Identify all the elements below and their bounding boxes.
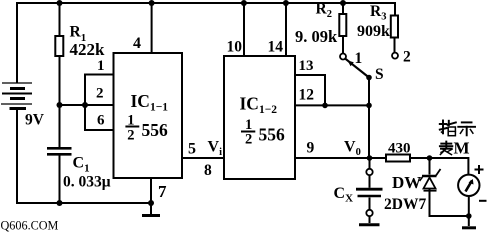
svg-text:12: 12 (299, 87, 315, 104)
svg-text:2DW7: 2DW7 (384, 196, 426, 213)
svg-text:1: 1 (355, 50, 363, 67)
svg-text:13: 13 (299, 58, 314, 74)
svg-text:556: 556 (142, 120, 169, 140)
svg-text:9: 9 (307, 140, 315, 157)
svg-text:556: 556 (259, 125, 286, 145)
svg-text:1: 1 (127, 112, 134, 128)
svg-text:8: 8 (204, 162, 212, 179)
svg-text:909k: 909k (357, 23, 390, 40)
svg-text:2: 2 (245, 132, 252, 148)
svg-text:430: 430 (388, 141, 411, 157)
svg-text:2: 2 (403, 49, 411, 66)
svg-text:6: 6 (97, 113, 105, 129)
svg-text:DW: DW (392, 173, 421, 192)
svg-text:2: 2 (127, 128, 134, 144)
svg-text:9. 09k: 9. 09k (295, 27, 338, 46)
svg-text:7: 7 (158, 182, 167, 201)
svg-text:Q606.COM: Q606.COM (1, 219, 59, 233)
svg-text:5: 5 (188, 141, 196, 158)
svg-text:1: 1 (245, 117, 252, 133)
svg-text:0. 033μ: 0. 033μ (63, 174, 111, 191)
svg-text:422k: 422k (70, 40, 106, 59)
svg-text:2: 2 (96, 86, 104, 102)
svg-text:9V: 9V (25, 112, 45, 129)
svg-text:S: S (375, 66, 384, 83)
svg-text:10: 10 (227, 39, 243, 56)
svg-text:14: 14 (268, 39, 284, 56)
svg-text:1: 1 (97, 58, 105, 74)
svg-text:M: M (454, 139, 470, 158)
svg-text:4: 4 (133, 35, 141, 52)
